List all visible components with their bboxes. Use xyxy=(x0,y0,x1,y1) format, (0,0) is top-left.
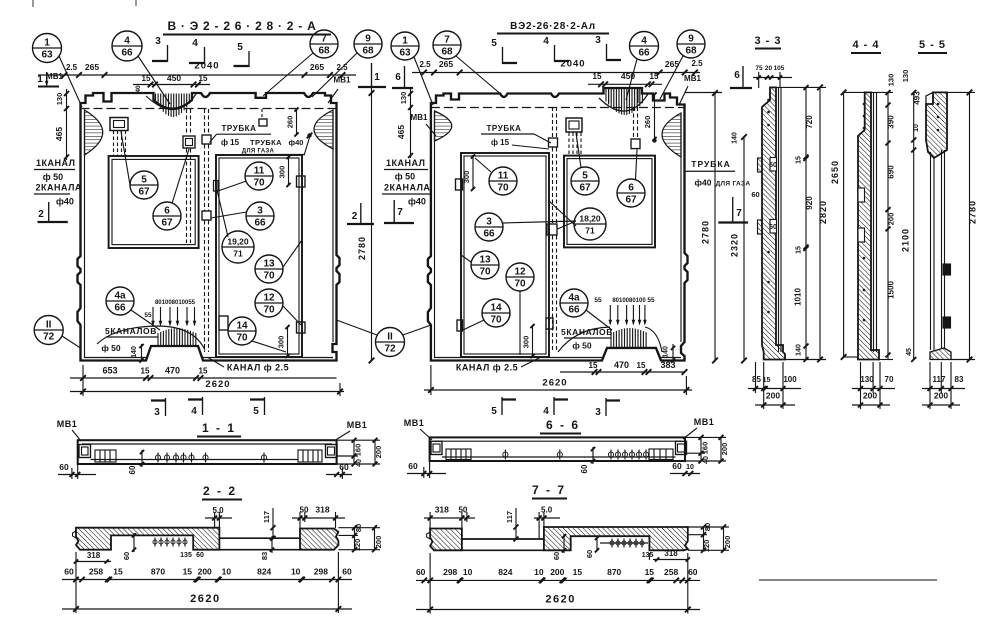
section 2-2 right dims 80 120 200 xyxy=(354,528,356,550)
svg-text:60: 60 xyxy=(672,461,682,471)
svg-text:55: 55 xyxy=(144,312,152,319)
section 1-1 MV1 box left xyxy=(79,445,91,458)
svg-text:60: 60 xyxy=(688,567,698,577)
svg-text:318: 318 xyxy=(315,505,329,515)
leader 6/67 to anchor plate mid xyxy=(172,149,189,204)
section 1-1 left detail block xyxy=(95,450,116,462)
dimension 2320 right of P2 xyxy=(743,136,745,361)
cut mark 5 top P1 xyxy=(234,42,250,67)
section 5-5 body top block xyxy=(926,92,947,158)
svg-text:130: 130 xyxy=(887,74,896,87)
section 6-6 dim 60 vertical xyxy=(592,447,594,464)
section 4-4 notch A xyxy=(858,188,865,202)
svg-text:60: 60 xyxy=(128,465,137,474)
svg-text:260: 260 xyxy=(286,116,295,129)
section 3-3 left bump A xyxy=(758,158,763,172)
svg-text:200: 200 xyxy=(723,536,732,549)
svg-text:160: 160 xyxy=(701,442,710,455)
svg-text:40: 40 xyxy=(356,459,363,467)
svg-text:ф40: ф40 xyxy=(56,197,74,207)
section 2-2 bottom dim row xyxy=(62,579,352,581)
svg-text:12: 12 xyxy=(514,267,526,278)
section 5-5 dark insert A xyxy=(943,264,951,275)
callout circle 13/70 P2 xyxy=(471,251,499,279)
leader 11/70 to jamb xyxy=(218,181,247,191)
svg-text:105: 105 xyxy=(774,65,785,72)
svg-text:135: 135 xyxy=(642,552,654,559)
panel P2 anchor plate top xyxy=(566,118,582,132)
svg-text:2.5: 2.5 xyxy=(419,60,431,69)
section 4-4 notch B xyxy=(858,228,865,242)
leader 13/70 P2 xyxy=(461,255,471,262)
leader 1/63 P2 xyxy=(414,57,433,105)
dimension 260 P1 xyxy=(296,109,298,135)
svg-text:130: 130 xyxy=(901,70,910,83)
section 1-1 right detail block xyxy=(298,450,322,462)
svg-text:70: 70 xyxy=(236,333,248,344)
dimension row 15 450 15 P1 xyxy=(133,84,210,86)
svg-text:1: 1 xyxy=(44,38,50,49)
cut mark 4 top P1 xyxy=(189,38,205,64)
leader 9/68 xyxy=(312,53,357,97)
leader II/72 left xyxy=(62,336,81,348)
svg-text:70: 70 xyxy=(263,305,275,316)
leader 3/66 to channel xyxy=(211,212,247,218)
svg-text:70: 70 xyxy=(253,178,265,189)
svg-text:7: 7 xyxy=(321,34,327,45)
dimension 300 door top P2 xyxy=(472,155,474,190)
panel P1 anchor plate mid xyxy=(183,136,195,148)
svg-text:2780: 2780 xyxy=(701,220,711,244)
panel P1 dashed top line xyxy=(81,108,337,110)
section 3-3 left bump B xyxy=(758,220,763,234)
cut mark 4 top P2 xyxy=(543,36,569,62)
svg-text:60: 60 xyxy=(580,464,589,473)
svg-text:68: 68 xyxy=(441,47,453,58)
svg-text:15: 15 xyxy=(796,156,803,164)
svg-text:63: 63 xyxy=(399,48,411,59)
svg-text:13: 13 xyxy=(263,259,275,270)
section 3-3 body xyxy=(762,87,785,359)
scan artifact tick A xyxy=(32,0,34,7)
svg-text:6: 6 xyxy=(628,183,634,194)
svg-text:67: 67 xyxy=(625,195,637,206)
svg-text:70: 70 xyxy=(885,375,894,384)
svg-text:2320: 2320 xyxy=(730,233,740,257)
callout circle 3/66 xyxy=(246,202,274,230)
section 7-7 left block xyxy=(430,529,462,551)
svg-text:15: 15 xyxy=(142,74,151,83)
svg-text:117: 117 xyxy=(505,511,514,523)
section 2-2 dim 2620 xyxy=(62,608,352,610)
svg-text:ВЭ2-26·28·2-Ал: ВЭ2-26·28·2-Ал xyxy=(510,21,596,32)
section 1-1 right dims 160 40 200 xyxy=(353,440,355,464)
section 4-4 right dim column 130 390 690 200 1500 xyxy=(887,92,889,359)
cut mark 5 bottom P1 xyxy=(250,397,265,417)
svg-text:6: 6 xyxy=(164,206,170,217)
callout circle 6/67 P2 xyxy=(617,179,645,207)
svg-text:318: 318 xyxy=(435,505,449,515)
section 6-6 right detail block xyxy=(649,449,673,460)
svg-text:493: 493 xyxy=(913,91,922,105)
svg-text:465: 465 xyxy=(396,125,406,139)
leader II/72 to P1 xyxy=(337,320,378,335)
svg-text:383: 383 xyxy=(660,360,675,370)
callout circle II/72 middle xyxy=(376,328,405,357)
section 5-5 left dim column 130 493 10 2100 xyxy=(913,92,915,359)
svg-text:4: 4 xyxy=(641,36,647,47)
leader 5/67 P2 xyxy=(576,133,581,168)
section 6-6 MV1 box left xyxy=(431,441,442,454)
section 3-3 notch 60 B xyxy=(770,158,777,172)
section 3-3 flange lines xyxy=(778,87,780,352)
section 7-7 left end keyway xyxy=(427,532,431,539)
svg-text:690: 690 xyxy=(887,165,896,179)
svg-text:1КАНАЛ: 1КАНАЛ xyxy=(36,158,75,168)
svg-text:2620: 2620 xyxy=(205,379,230,390)
scan artifact tick B xyxy=(135,0,137,6)
dimension 2620 P2 xyxy=(424,389,692,391)
svg-text:60: 60 xyxy=(342,567,352,577)
svg-text:2100: 2100 xyxy=(901,228,911,252)
svg-text:9: 9 xyxy=(688,34,694,45)
svg-text:117: 117 xyxy=(262,511,271,523)
leader 14/70 P2 xyxy=(463,320,484,330)
svg-text:60: 60 xyxy=(585,550,594,558)
section 2-2 left block xyxy=(76,528,219,550)
leader 1/63 xyxy=(59,56,82,107)
section 5-5 rebar dots top xyxy=(937,103,940,106)
svg-text:ф 15: ф 15 xyxy=(491,138,510,147)
svg-text:470: 470 xyxy=(614,360,629,370)
callout circle 5/67 xyxy=(130,171,158,199)
svg-text:ТРУБКА: ТРУБКА xyxy=(691,159,730,169)
svg-text:МВ1: МВ1 xyxy=(404,418,425,428)
svg-text:10: 10 xyxy=(222,567,232,577)
svg-text:66: 66 xyxy=(254,218,266,229)
section 6-6 interior bottom line xyxy=(442,456,676,458)
svg-text:70: 70 xyxy=(514,279,526,290)
section 4-4 dim 2650 xyxy=(843,92,845,357)
svg-text:ТРУБКА: ТРУБКА xyxy=(250,138,282,147)
svg-text:265: 265 xyxy=(310,62,324,72)
svg-text:9: 9 xyxy=(365,34,371,45)
panel P1 inner edge lines xyxy=(84,112,86,358)
svg-text:МВ1: МВ1 xyxy=(347,420,368,430)
svg-text:3: 3 xyxy=(154,407,160,418)
dimension 2620 P1 xyxy=(70,391,344,393)
svg-text:4: 4 xyxy=(543,406,549,417)
callout circle 11/70 P2 xyxy=(489,167,517,195)
svg-text:7 - 7: 7 - 7 xyxy=(532,483,566,497)
panel P1 door opening xyxy=(216,155,302,357)
svg-text:МВ1: МВ1 xyxy=(334,76,351,85)
svg-text:55: 55 xyxy=(647,297,655,304)
svg-text:ДЛЯ ГАЗА: ДЛЯ ГАЗА xyxy=(242,149,275,155)
svg-text:824: 824 xyxy=(257,567,271,577)
svg-text:300: 300 xyxy=(277,336,286,349)
svg-text:2.5: 2.5 xyxy=(66,63,78,72)
stray line bottom right xyxy=(759,579,937,581)
svg-text:66: 66 xyxy=(483,229,495,240)
svg-text:140: 140 xyxy=(796,344,803,356)
svg-text:83: 83 xyxy=(955,375,964,384)
cut mark 4 bottom P1 xyxy=(188,397,203,417)
callout circle 3/66 P2 xyxy=(475,213,503,241)
svg-text:298: 298 xyxy=(443,567,457,577)
panel P1 door jamb ledge xyxy=(214,181,219,192)
section 4-4 body xyxy=(858,92,879,359)
svg-text:ф 50: ф 50 xyxy=(572,341,592,351)
svg-text:3: 3 xyxy=(486,217,492,228)
svg-text:15: 15 xyxy=(645,567,655,577)
callout circle 1/63 P2 xyxy=(391,32,419,60)
callout circle 4/66 P2 xyxy=(630,32,659,61)
svg-text:70: 70 xyxy=(263,271,275,282)
svg-text:66: 66 xyxy=(121,48,133,59)
svg-text:66: 66 xyxy=(568,305,580,316)
panel P1 bottom channels hatch xyxy=(97,326,205,350)
leader 6/67 P2 xyxy=(636,150,638,180)
leader TRUBKA P2 xyxy=(534,134,551,143)
svg-text:15: 15 xyxy=(113,567,123,577)
dimension row 15 450 15 P2 xyxy=(588,83,662,85)
section 7-7 dim 2620 xyxy=(416,609,700,611)
leader 4/66 P2 xyxy=(626,59,637,100)
callout circle 5/67 P2 xyxy=(571,167,599,195)
svg-text:ТРУБКА: ТРУБКА xyxy=(221,124,256,133)
svg-text:2620: 2620 xyxy=(542,378,567,389)
svg-text:4а: 4а xyxy=(568,293,580,304)
svg-text:II: II xyxy=(46,320,52,331)
svg-text:7: 7 xyxy=(397,207,403,218)
section 7-7 rebar circles xyxy=(610,541,614,545)
panel P1 tube square lower xyxy=(202,211,211,220)
svg-text:6: 6 xyxy=(734,70,740,81)
svg-text:67: 67 xyxy=(161,218,173,229)
svg-text:68: 68 xyxy=(318,46,330,57)
section 2-2 middle thin strip xyxy=(219,538,300,550)
svg-text:1КАНАЛ: 1КАНАЛ xyxy=(386,158,425,168)
svg-text:10: 10 xyxy=(291,567,301,577)
callout circle 12/70 xyxy=(255,289,283,317)
section 2-2 dim 117 xyxy=(272,508,274,538)
section 5-5 foot xyxy=(930,348,951,360)
panel P1 door bracket right top xyxy=(297,176,306,187)
svg-text:200: 200 xyxy=(374,536,383,549)
section 5-5 top hook xyxy=(926,92,933,104)
panel P1 anchor plate MV1 top-left xyxy=(110,118,128,131)
leader II/72 to P2 xyxy=(403,325,431,335)
svg-text:ф 15: ф 15 xyxy=(221,138,240,147)
cut mark 5 bottom P2 xyxy=(491,397,516,417)
panel P2 channel dashed pair B xyxy=(633,107,635,139)
dimension row 2.5 265 2040 265 2.5 P1 xyxy=(38,74,356,76)
svg-text:15: 15 xyxy=(199,74,208,83)
panel P2 door bracket left top xyxy=(456,179,463,190)
svg-text:КАНАЛ ф 2.5: КАНАЛ ф 2.5 xyxy=(456,363,518,373)
section 3-3 dim 2820 xyxy=(819,87,821,359)
svg-text:2 - 2: 2 - 2 xyxy=(203,484,237,498)
svg-text:10: 10 xyxy=(686,464,694,471)
svg-text:60: 60 xyxy=(416,567,426,577)
panel P1 bottom channel arrows xyxy=(152,307,154,325)
svg-text:1010: 1010 xyxy=(794,288,803,306)
svg-text:5: 5 xyxy=(141,175,147,186)
section 7-7 right dims 80 120 200 xyxy=(703,527,705,550)
panel P1 door bracket left bottom xyxy=(219,316,228,330)
panel P2 top hatch depression 450 xyxy=(608,89,610,104)
svg-text:824: 824 xyxy=(498,567,512,577)
section 5-5 dim 2780 xyxy=(969,92,971,360)
svg-text:15: 15 xyxy=(199,367,208,376)
section 6-6 rebar circles xyxy=(608,452,613,457)
svg-text:2: 2 xyxy=(38,209,44,220)
panel P2 bottom channel arrows xyxy=(609,305,611,324)
panel P1 window opening xyxy=(109,156,199,248)
section 1-1 dim 60 vertical xyxy=(141,450,143,467)
svg-text:19,20: 19,20 xyxy=(227,237,249,247)
svg-text:МВ1: МВ1 xyxy=(411,113,428,122)
svg-text:4а: 4а xyxy=(114,291,126,302)
section 3-3 inner dim column 720 15 920 15 1010 140 xyxy=(805,87,807,359)
section 1-1 body outline xyxy=(78,440,337,464)
panel P1 door bracket right bottom xyxy=(297,322,306,333)
svg-text:В·Э2-26·28·2-А: В·Э2-26·28·2-А xyxy=(167,19,320,33)
panel P2 door opening xyxy=(461,153,549,357)
svg-text:4: 4 xyxy=(192,38,198,49)
panel P2 door bracket right bottom xyxy=(546,318,553,329)
svg-text:1 - 1: 1 - 1 xyxy=(202,421,236,435)
section 1-1 MV1 box right xyxy=(326,445,338,458)
svg-text:200: 200 xyxy=(198,567,212,577)
section 6-6 left detail block xyxy=(446,449,471,460)
svg-text:66: 66 xyxy=(114,303,126,314)
svg-text:6 - 6: 6 - 6 xyxy=(546,418,580,432)
leader 18,20/71 to tube xyxy=(558,221,577,229)
panel P2 top-right hatch patch xyxy=(662,113,681,157)
leader 4/66 xyxy=(138,56,170,104)
panel P2 outline xyxy=(428,88,688,361)
section 7-7 bottom dim row xyxy=(416,579,700,581)
dimension 2780 between panels xyxy=(371,88,373,361)
svg-text:2КАНАЛА: 2КАНАЛА xyxy=(36,183,82,193)
svg-text:4: 4 xyxy=(191,406,197,417)
svg-text:720: 720 xyxy=(805,115,814,129)
svg-text:72: 72 xyxy=(43,332,55,343)
svg-text:70: 70 xyxy=(479,267,491,278)
svg-text:2: 2 xyxy=(352,211,358,222)
svg-text:200: 200 xyxy=(887,213,896,226)
svg-text:5: 5 xyxy=(237,42,243,53)
svg-text:298: 298 xyxy=(314,567,328,577)
dimension row 2.5 265 2040 265 2.5 P2 xyxy=(412,72,700,74)
svg-text:71: 71 xyxy=(585,226,595,236)
svg-text:11: 11 xyxy=(254,166,265,177)
svg-text:12: 12 xyxy=(263,293,275,304)
svg-text:11: 11 xyxy=(498,171,509,182)
section 6-6 body outline xyxy=(430,437,685,461)
svg-text:75: 75 xyxy=(755,65,763,72)
svg-text:258: 258 xyxy=(664,567,678,577)
svg-text:3 - 3: 3 - 3 xyxy=(754,35,781,47)
svg-text:55: 55 xyxy=(594,297,602,304)
panel P1 channel dashed pair B xyxy=(204,109,206,135)
svg-text:200: 200 xyxy=(374,446,383,459)
svg-text:72: 72 xyxy=(384,344,396,355)
svg-text:10: 10 xyxy=(534,567,544,577)
svg-text:67: 67 xyxy=(579,183,591,194)
svg-text:5: 5 xyxy=(491,406,497,417)
svg-text:45: 45 xyxy=(906,348,913,356)
panel P2 bottom channels hatch xyxy=(558,327,610,352)
section 6-6 MV1 box right xyxy=(676,441,687,454)
dimension row 653 15 470 15 P1 xyxy=(70,377,337,379)
section 2-2 right block xyxy=(300,529,338,550)
svg-text:3: 3 xyxy=(155,36,161,47)
svg-text:135: 135 xyxy=(180,552,192,559)
svg-text:66: 66 xyxy=(638,48,650,59)
cut mark 3 bottom P1 xyxy=(151,398,166,418)
panel P2 channel dashed pair A xyxy=(552,107,554,138)
callout circle 7/68 P2 xyxy=(433,31,461,59)
callout circle 11/70 xyxy=(245,162,273,190)
svg-text:ДЛЯ ГАЗА: ДЛЯ ГАЗА xyxy=(716,181,751,188)
callout circle 4/66 P1 top xyxy=(112,31,142,61)
svg-text:5: 5 xyxy=(253,406,259,417)
svg-text:300: 300 xyxy=(278,166,287,179)
svg-text:5: 5 xyxy=(491,38,497,49)
svg-text:ф40: ф40 xyxy=(289,138,304,147)
section 2-2 left end keyway xyxy=(73,531,77,538)
svg-text:14: 14 xyxy=(490,303,502,314)
svg-text:60: 60 xyxy=(59,462,69,472)
svg-text:85: 85 xyxy=(752,375,761,384)
svg-text:10: 10 xyxy=(913,124,920,132)
svg-text:130: 130 xyxy=(399,92,408,105)
svg-text:15: 15 xyxy=(637,361,646,370)
svg-text:130: 130 xyxy=(55,93,64,106)
svg-text:265: 265 xyxy=(439,59,453,69)
svg-text:160: 160 xyxy=(354,444,363,457)
dimension 300 door top P1 xyxy=(288,156,290,186)
panel P2 window opening xyxy=(564,156,655,248)
svg-text:258: 258 xyxy=(89,567,103,577)
svg-text:870: 870 xyxy=(151,567,165,577)
panel P1 top-left hatch patch xyxy=(85,110,103,155)
svg-text:140: 140 xyxy=(131,346,138,358)
dimension 130 465 P2 left xyxy=(410,89,412,158)
cut mark 3 bottom P2 xyxy=(595,398,620,418)
svg-text:465: 465 xyxy=(54,127,64,141)
svg-text:60: 60 xyxy=(552,552,561,560)
leader 7/68 P2 xyxy=(456,56,503,96)
section 5-5 web lines xyxy=(930,152,932,350)
svg-text:450: 450 xyxy=(167,73,181,83)
svg-text:1500: 1500 xyxy=(887,281,896,299)
callout circle 14/70 P2 xyxy=(482,299,510,327)
svg-text:260: 260 xyxy=(643,116,652,129)
svg-text:870: 870 xyxy=(607,567,621,577)
leader 4a/66 to channels xyxy=(131,310,160,330)
svg-text:3: 3 xyxy=(595,35,601,46)
section 3-3 rebar dots xyxy=(767,99,770,102)
section 4-4 flange lines xyxy=(873,92,875,352)
svg-text:318: 318 xyxy=(664,549,678,558)
svg-text:60: 60 xyxy=(196,552,204,559)
section 2-2 rebar circles xyxy=(153,540,157,544)
svg-text:2КАНАЛА: 2КАНАЛА xyxy=(384,183,430,193)
